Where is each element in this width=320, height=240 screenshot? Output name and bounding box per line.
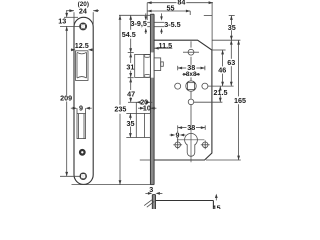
dim 63 vertical xyxy=(230,40,233,86)
faceplate outline (front view) xyxy=(74,17,93,184)
svg-text:11.5: 11.5 xyxy=(159,41,173,50)
svg-text:54.5: 54.5 xyxy=(122,30,136,39)
svg-text:15: 15 xyxy=(213,204,221,209)
screw post circle top xyxy=(188,49,194,55)
dim 46 vertical xyxy=(221,50,224,86)
dim 11.5 leader xyxy=(154,47,172,49)
dim 235 vertical xyxy=(119,15,122,184)
extension bolt hole level xyxy=(194,101,223,103)
dim 20 row xyxy=(128,101,152,114)
bolt hole circle below follower xyxy=(188,99,194,105)
euro profile cylinder hole xyxy=(177,131,205,162)
dim 209 bottom extension xyxy=(60,175,80,177)
dim 15 arrow xyxy=(215,194,218,201)
extension follower level xyxy=(208,85,234,87)
bottom view strike lip xyxy=(144,200,154,207)
bolt cutout (front view) xyxy=(77,114,86,139)
svg-text:13: 13 xyxy=(58,16,66,25)
deadbolt (side view) xyxy=(136,113,150,137)
svg-text:8x8: 8x8 xyxy=(186,71,197,78)
svg-text:84: 84 xyxy=(177,0,185,6)
svg-text:35: 35 xyxy=(126,119,134,128)
forend top extension line xyxy=(119,14,150,16)
dim 10 row xyxy=(138,107,156,110)
svg-text:24: 24 xyxy=(79,6,87,15)
dim chain 54.5 / 31 / 47 vertical xyxy=(128,15,134,102)
svg-text:3-9,5: 3-9,5 xyxy=(131,19,147,28)
svg-text:46: 46 xyxy=(218,66,226,75)
dim 9 arrows (front view) xyxy=(71,107,92,114)
dim 38 upper xyxy=(178,57,205,71)
dim 3 bottom arrows xyxy=(145,192,162,195)
faceplate top screw xyxy=(80,23,86,29)
dim 13 extension lines xyxy=(60,17,80,26)
dim 38 lower xyxy=(178,125,206,129)
dim 21.5 vertical xyxy=(219,86,222,102)
svg-text:55: 55 xyxy=(167,4,175,13)
svg-text:9: 9 xyxy=(79,103,83,112)
dim 84 line xyxy=(147,1,213,50)
extension case bottom xyxy=(206,159,241,161)
dim 35 right vertical xyxy=(204,16,235,41)
dim 9 arrows (cylinder) xyxy=(170,130,186,142)
svg-text:3-5.5: 3-5.5 xyxy=(164,20,180,29)
svg-text:38: 38 xyxy=(187,123,195,132)
svg-text:63: 63 xyxy=(227,58,235,67)
extension chamfer level xyxy=(212,49,226,51)
faceplate bottom screw xyxy=(80,173,86,179)
svg-text:47: 47 xyxy=(127,89,135,98)
dim 209 vertical line with 13 arrows xyxy=(65,11,68,177)
dim 12.5 line and arrows xyxy=(71,48,93,51)
svg-text:31: 31 xyxy=(126,62,134,71)
dim 165 vertical xyxy=(237,40,240,160)
dim 8x8 arrows xyxy=(182,73,200,76)
dim 24 line and arrows xyxy=(66,9,99,26)
svg-text:21.5: 21.5 xyxy=(214,88,228,97)
case top extension to right xyxy=(212,39,240,41)
faceplate middle hole xyxy=(80,150,85,155)
forend plate edge-on (side view) xyxy=(150,14,154,184)
follower to cylinder centerline xyxy=(190,104,192,125)
svg-text:35: 35 xyxy=(228,23,236,32)
bottom view case outline xyxy=(155,201,213,210)
svg-text:165: 165 xyxy=(234,96,246,105)
dim 3-9,5 arrows xyxy=(145,13,151,34)
dim 3-5,5 arrows xyxy=(154,13,164,34)
dim 35 deadbolt vertical xyxy=(126,113,136,137)
cylinder fixing holes with crosshairs xyxy=(173,140,209,149)
svg-text:235: 235 xyxy=(114,105,126,114)
svg-text:12.5: 12.5 xyxy=(75,41,89,50)
latch bolt (side view) xyxy=(135,54,151,77)
forend bottom extension xyxy=(71,184,154,186)
svg-text:209: 209 xyxy=(60,94,72,103)
centerline into cylinder dome xyxy=(190,128,192,131)
latch cutout (front view) xyxy=(76,51,89,81)
bottom view faceplate edge xyxy=(152,195,155,209)
latch guide boss inside case xyxy=(154,58,163,71)
latch bolt (front view) xyxy=(77,52,87,78)
svg-text:9: 9 xyxy=(175,131,179,140)
svg-text:10: 10 xyxy=(143,104,151,113)
svg-text:3: 3 xyxy=(149,185,153,194)
follower side circles xyxy=(175,83,181,89)
lock case outline (side view) xyxy=(154,40,212,160)
handle follower with 8x8 square xyxy=(186,77,196,99)
dim 55 line xyxy=(147,10,190,15)
